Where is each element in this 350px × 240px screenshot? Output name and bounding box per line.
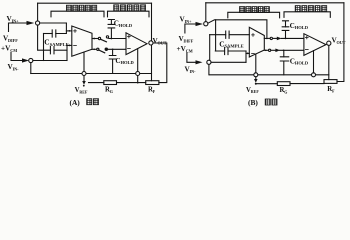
label gain amp 增益放大器 (A) [114, 5, 146, 11]
svg-text:HOLD: HOLD [295, 25, 309, 30]
wire preamp out top (B) [264, 37, 270, 39]
junction rail node to resistor wire [137, 76, 139, 83]
svg-text:G: G [110, 89, 113, 94]
switch S1 (B, closed arrow) [270, 37, 272, 39]
wire preamp out bottom (B) [264, 49, 268, 51]
svg-text:(A): (A) [70, 98, 81, 107]
bracket preamp label (A) [51, 11, 104, 17]
svg-text:CM: CM [10, 48, 17, 53]
input terminal VIN+ wire with arrow [9, 23, 29, 32]
svg-text:HOLD: HOLD [121, 60, 135, 65]
svg-text:(B): (B) [248, 98, 258, 107]
capacitor CHOLD lower (B) [283, 50, 285, 57]
capacitor CSAMPLE upper (A) [56, 23, 67, 34]
top feedback rail (B) [206, 2, 344, 4]
op-amp preamp A1 (B) [249, 27, 264, 57]
bottom reference rail (A) [31, 73, 152, 75]
svg-text:HOLD: HOLD [295, 61, 309, 66]
preamp output dots (B) [266, 38, 268, 40]
wire node up to top rail (B) [205, 3, 207, 22]
wire preamp out top [92, 38, 98, 40]
resistor RG (A) [104, 81, 117, 85]
bracket gain label (B) [284, 12, 330, 17]
wire node IN- down to rail [30, 63, 32, 74]
wire to gain amp bottom input [108, 48, 127, 50]
label preamp 前置放大器 (A) [66, 5, 96, 11]
wire upper cap left down to IN- wire [43, 34, 45, 61]
node gain-amp ref on rail (A) [136, 72, 140, 76]
wire node IN- down to rail (B) [208, 64, 210, 74]
svg-text:OUT: OUT [337, 40, 346, 45]
switch S2 (B, closed arrow) [268, 49, 270, 51]
input terminal VIN- stub from VCM label [11, 53, 23, 61]
wire to gain amp top input (B) [281, 37, 304, 39]
input terminal VIN+ wire with arrow (B) [185, 24, 197, 33]
svg-text:IN-: IN- [190, 69, 197, 74]
svg-text:G: G [284, 89, 287, 94]
op-amp gain amp A2 (B) [304, 34, 326, 56]
wire VOUT node down to RF top (B) [328, 45, 330, 79]
node IN- (A) [29, 58, 33, 62]
wire preamp ref pin down to rail [83, 52, 85, 71]
wire preamp ref pin down to rail (B) [255, 54, 257, 73]
node gain-amp ref on rail (B) [312, 73, 316, 77]
wire gain-amp ref down to rail [137, 49, 139, 72]
svg-text:IN-: IN- [13, 67, 20, 72]
bottom input wire [33, 60, 67, 62]
resistor RF (B) [324, 80, 337, 84]
label gain amp 增益放大器 (B) [295, 6, 327, 12]
wire lower cap right down to bottom wire (B) [245, 51, 247, 62]
bottom reference rail (B) [209, 74, 328, 76]
resistor RG (B) [277, 82, 290, 86]
svg-text:SAMPLE: SAMPLE [225, 44, 244, 49]
svg-text:DIFF: DIFF [8, 38, 18, 43]
preamp lower input stub (B) [246, 52, 249, 54]
wire gain-amp ref down to rail (B) [313, 51, 315, 73]
VREF arrow terminal (B) [255, 77, 257, 80]
wire VREF to RG (B) [256, 83, 277, 85]
node VREF tap (B) [254, 73, 258, 77]
switch S1 (A, open) [98, 37, 100, 39]
wire rail down through VOUT node to RF top [151, 3, 153, 81]
bracket preamp label (B) [228, 12, 280, 17]
preamp lower input stub [67, 44, 72, 46]
input terminal VIN- stub (B) [187, 53, 196, 63]
svg-text:HOLD: HOLD [119, 23, 133, 28]
wire input wire down to lower cap (B) [215, 20, 217, 51]
wire to gain amp top input [109, 38, 126, 40]
node VOUT (B) [327, 41, 331, 45]
svg-text:SAMPLE: SAMPLE [50, 42, 69, 47]
op-amp gain amp A2 (A) [126, 33, 147, 55]
capacitor CHOLD upper (A) [108, 20, 114, 25]
wire node up to top rail [37, 3, 39, 21]
svg-text:REF: REF [251, 89, 260, 94]
wire top input [40, 22, 67, 24]
top input wire (B) [208, 20, 267, 37]
capacitor CSAMPLE lower (A) [50, 47, 54, 54]
preamp upper input stub [66, 30, 71, 32]
wire VREF to RG [89, 82, 104, 84]
svg-text:IN+: IN+ [12, 19, 20, 24]
wire upper cap left down to node IN- (B) [209, 35, 211, 61]
node IN+ (A) [36, 21, 40, 25]
svg-text:OUT: OUT [158, 41, 167, 46]
node IN+ (B) [204, 22, 208, 26]
wire lower cap right to preamp input [66, 45, 68, 60]
wire to gain amp bottom input (B) [280, 49, 304, 51]
resistor RF (A) [146, 81, 159, 85]
label preamp 前置放大器 (B) [240, 7, 270, 13]
wire RG to RF [117, 82, 146, 84]
wire VOUT right then down to RF right [153, 43, 167, 83]
VREF arrow terminal [83, 76, 85, 82]
svg-text:DIFF: DIFF [184, 38, 194, 43]
node VREF tap (A) [82, 72, 86, 76]
svg-text:CM: CM [186, 49, 193, 54]
node IN- (B) [207, 60, 211, 64]
wire RG to RF (B) [290, 82, 324, 84]
bracket gain label (A) [108, 11, 150, 17]
preamp output dots [93, 38, 95, 40]
top feedback rail (A) [38, 2, 152, 4]
svg-text:REF: REF [79, 89, 88, 94]
op-amp preamp A1 (A) [72, 26, 92, 56]
capacitor CSAMPLE lower (B) [215, 50, 246, 52]
capacitor CHOLD upper (B) [283, 21, 289, 27]
wire top node down for lower cap [38, 25, 51, 50]
switch S2 (A, open) [97, 48, 99, 50]
bottom input wire (B) [211, 61, 246, 63]
capacitor CHOLD lower (A) [112, 49, 114, 55]
wire preamp out bottom [92, 48, 97, 50]
capacitor CSAMPLE upper (B) [210, 34, 250, 36]
node VOUT (A) [149, 41, 153, 45]
right side down to RF (B) [337, 3, 344, 82]
svg-text:IN+: IN+ [185, 19, 193, 24]
